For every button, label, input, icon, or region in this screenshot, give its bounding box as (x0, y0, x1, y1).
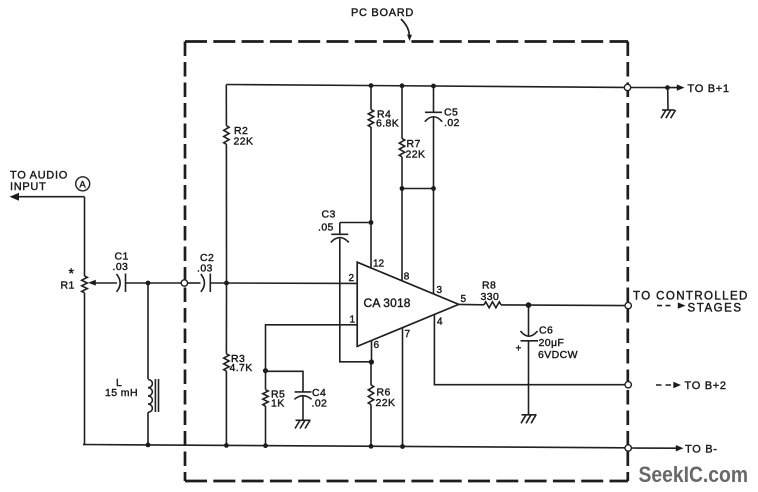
wire C3 horizontal to R4 column (340, 222, 371, 224)
R6 value label (376, 387, 396, 410)
wire pin 5 output (459, 303, 484, 305)
svg-text:12: 12 (373, 259, 385, 270)
pin 2 label (349, 273, 355, 284)
svg-text:*: * (69, 265, 75, 281)
pin 8 label (404, 272, 410, 283)
wire R4 to op-amp pin 12 (370, 127, 372, 268)
svg-text:22K: 22K (234, 136, 254, 148)
ground below C4 (295, 420, 311, 428)
wire rail corner down to R2 (225, 85, 227, 126)
capacitor C2 (201, 274, 211, 293)
wire pin 1 to R5 junction (266, 325, 358, 371)
junction ground tap B+1 (665, 85, 670, 90)
wire ground stub B+1 (667, 88, 669, 110)
B- bottom rail (83, 445, 625, 448)
svg-text:TO AUDIO: TO AUDIO (10, 170, 68, 182)
wire R1 bottom to B- rail (83, 293, 85, 445)
svg-text:2: 2 (349, 273, 355, 284)
wire R7-C5 tie (402, 188, 434, 190)
junction pin6 / C3 / R6 (369, 359, 374, 364)
svg-text:3: 3 (437, 285, 443, 296)
dashed arrow to STAGES (657, 302, 686, 308)
arrow TO B+1 (677, 84, 685, 90)
C4 value label (312, 387, 328, 410)
C5 value label (444, 107, 460, 130)
resistor R8 (484, 302, 501, 308)
TO AUDIO INPUT label (10, 170, 68, 194)
svg-text:C3: C3 (322, 209, 336, 221)
R5 value label (271, 389, 285, 410)
R4 value label (376, 108, 399, 129)
B+1 top rail (226, 85, 624, 88)
wire main line junction down to R3 (225, 283, 227, 354)
wire C4 to ground (302, 395, 304, 420)
pin 7 label (405, 329, 411, 340)
svg-text:22K: 22K (376, 397, 396, 409)
junction R7 on rail (400, 83, 405, 88)
pin 3 label (437, 285, 443, 296)
pin 1 label (350, 315, 356, 326)
wire R5 to B- rail (265, 406, 267, 446)
svg-text:TO B+2: TO B+2 (685, 380, 727, 392)
wire input corner down to R1 (84, 197, 86, 276)
svg-text:1: 1 (350, 315, 356, 326)
svg-text:8: 8 (404, 272, 410, 283)
wire R4 column top (370, 86, 372, 110)
svg-text:15 mH: 15 mH (105, 387, 138, 399)
R1 label (61, 280, 75, 292)
capacitor C5 (425, 112, 442, 121)
wire B- tail (631, 447, 676, 449)
svg-text:22K: 22K (406, 149, 426, 161)
junction pin7 on rail (400, 444, 405, 449)
svg-text:4.7K: 4.7K (230, 362, 253, 374)
pin 5 label (461, 294, 467, 305)
svg-text:PC BOARD: PC BOARD (351, 7, 414, 19)
wire junction to C4 (266, 371, 304, 392)
wire R5 top (265, 371, 267, 390)
TO B+2 label (685, 380, 727, 392)
R8 value label (481, 280, 500, 304)
capacitor C6 (516, 331, 539, 355)
svg-text:TO B+1: TO B+1 (688, 83, 730, 95)
svg-text:R1: R1 (61, 280, 75, 292)
junction C3 tap on R4 column (369, 220, 374, 225)
junction R4 on rail (369, 83, 374, 88)
junction C5 on rail (431, 84, 436, 89)
wire C1 to input terminal (126, 282, 181, 284)
svg-text:1K: 1K (271, 398, 285, 410)
input arrow (10, 193, 85, 201)
svg-text:.02: .02 (312, 398, 328, 410)
svg-text:C6: C6 (539, 325, 553, 337)
resistor R1 (82, 276, 88, 293)
wire R6 to B- rail (370, 405, 372, 447)
R1 asterisk (69, 265, 75, 281)
wire C5 column top (433, 86, 435, 112)
svg-text:.03: .03 (113, 261, 129, 273)
wire C5 to op-amp pin 3 (433, 117, 435, 294)
wire C3 bottom to pin6 junction (340, 239, 372, 362)
wire R2 to main line (225, 144, 227, 283)
svg-text:6: 6 (374, 340, 380, 351)
R2 value label (234, 125, 254, 148)
R3 value label (230, 353, 253, 374)
svg-text:STAGES: STAGES (688, 303, 743, 315)
C3 value label (318, 209, 336, 234)
C6 value label (538, 325, 578, 362)
B- terminal circle (625, 445, 631, 451)
C2 value label (197, 252, 214, 275)
dashed arrow to B+2 (656, 382, 681, 388)
node A (76, 177, 90, 191)
TO B- label (685, 444, 718, 456)
svg-text:6VDCW: 6VDCW (538, 349, 578, 361)
pin 6 label (374, 340, 380, 351)
PC board dashed outline (185, 42, 628, 482)
input terminal circle on board edge (181, 280, 187, 286)
junction R6 on rail (369, 444, 374, 449)
wire pin 4 to B+2 line (434, 314, 625, 384)
B+2 terminal circle (625, 382, 631, 388)
op-amp U1 triangle (357, 262, 459, 346)
resistor R4 (368, 110, 373, 128)
R1 wiper arrow (88, 280, 117, 286)
ground below C6 (521, 415, 537, 424)
svg-text:5: 5 (461, 294, 467, 305)
wire B+1 tail (631, 87, 677, 89)
TO B+1 label (688, 83, 730, 95)
pin 12 label (373, 259, 385, 270)
wire C6 to ground (528, 341, 530, 415)
pin 4 label (437, 317, 443, 328)
svg-text:INPUT: INPUT (10, 181, 47, 193)
svg-text:TO CONTROLLED: TO CONTROLLED (633, 291, 749, 303)
capacitor C3 (331, 223, 349, 243)
wire R3 to B- rail (225, 371, 227, 445)
svg-text:TO B-: TO B- (685, 444, 718, 456)
svg-text:+: + (516, 344, 522, 355)
inductor L (148, 379, 159, 412)
junction R3 on rail (224, 443, 229, 448)
svg-text:.03: .03 (197, 263, 213, 275)
svg-text:7: 7 (405, 329, 411, 340)
PC BOARD leader arrow (401, 19, 412, 41)
svg-text:A: A (79, 179, 86, 190)
capacitor C4 (294, 392, 311, 399)
junction L tap (146, 281, 151, 286)
svg-text:4: 4 (437, 317, 443, 328)
C1 value label (113, 251, 129, 273)
svg-text:20μF: 20μF (539, 337, 565, 349)
SeekIC watermark (639, 462, 749, 487)
svg-text:.05: .05 (318, 222, 334, 234)
junction R5 / C4 (263, 368, 268, 373)
svg-text:6.8K: 6.8K (376, 118, 399, 130)
wire R7 column top (401, 86, 403, 139)
wire R8 to output terminal (501, 304, 625, 307)
junction R7-C5 tie left (400, 186, 405, 191)
TO CONTROLLED STAGES label (633, 291, 749, 315)
ground below B+1 (661, 110, 676, 118)
wire pin 7 to B- rail (402, 327, 404, 446)
output terminal circle (625, 302, 631, 308)
junction R7-C5 tie right (431, 186, 436, 191)
resistor R6 (368, 385, 373, 405)
resistor R7 (399, 139, 404, 157)
junction C6 tap (526, 302, 532, 308)
junction C2 / R2R3 column (224, 281, 229, 286)
B+1 terminal circle (624, 84, 630, 90)
svg-text:CA 3018: CA 3018 (364, 296, 411, 310)
wire C6 top (528, 305, 530, 337)
L value label (105, 377, 138, 399)
resistor R2 (224, 126, 229, 145)
svg-text:SeekIC.com: SeekIC.com (639, 462, 749, 487)
wire L branch top (147, 283, 149, 379)
wire pin 6 down (370, 340, 373, 385)
wire L bottom (147, 412, 149, 445)
PC BOARD label (351, 7, 414, 19)
wire R7 to op-amp pin 8 (401, 157, 403, 281)
capacitor C1 (117, 274, 126, 293)
resistor R3 (224, 354, 229, 371)
svg-text:330: 330 (481, 291, 500, 303)
R7 value label (406, 138, 426, 161)
junction R5 on rail (263, 443, 268, 448)
junction L on rail (146, 443, 151, 448)
arrow TO B- (676, 445, 684, 451)
svg-text:.02: .02 (444, 117, 460, 129)
resistor R5 (263, 390, 268, 406)
wire terminal to C2 (188, 282, 201, 284)
wire C2 to op-amp pin 2 (211, 282, 357, 284)
svg-text:R8: R8 (482, 280, 496, 292)
